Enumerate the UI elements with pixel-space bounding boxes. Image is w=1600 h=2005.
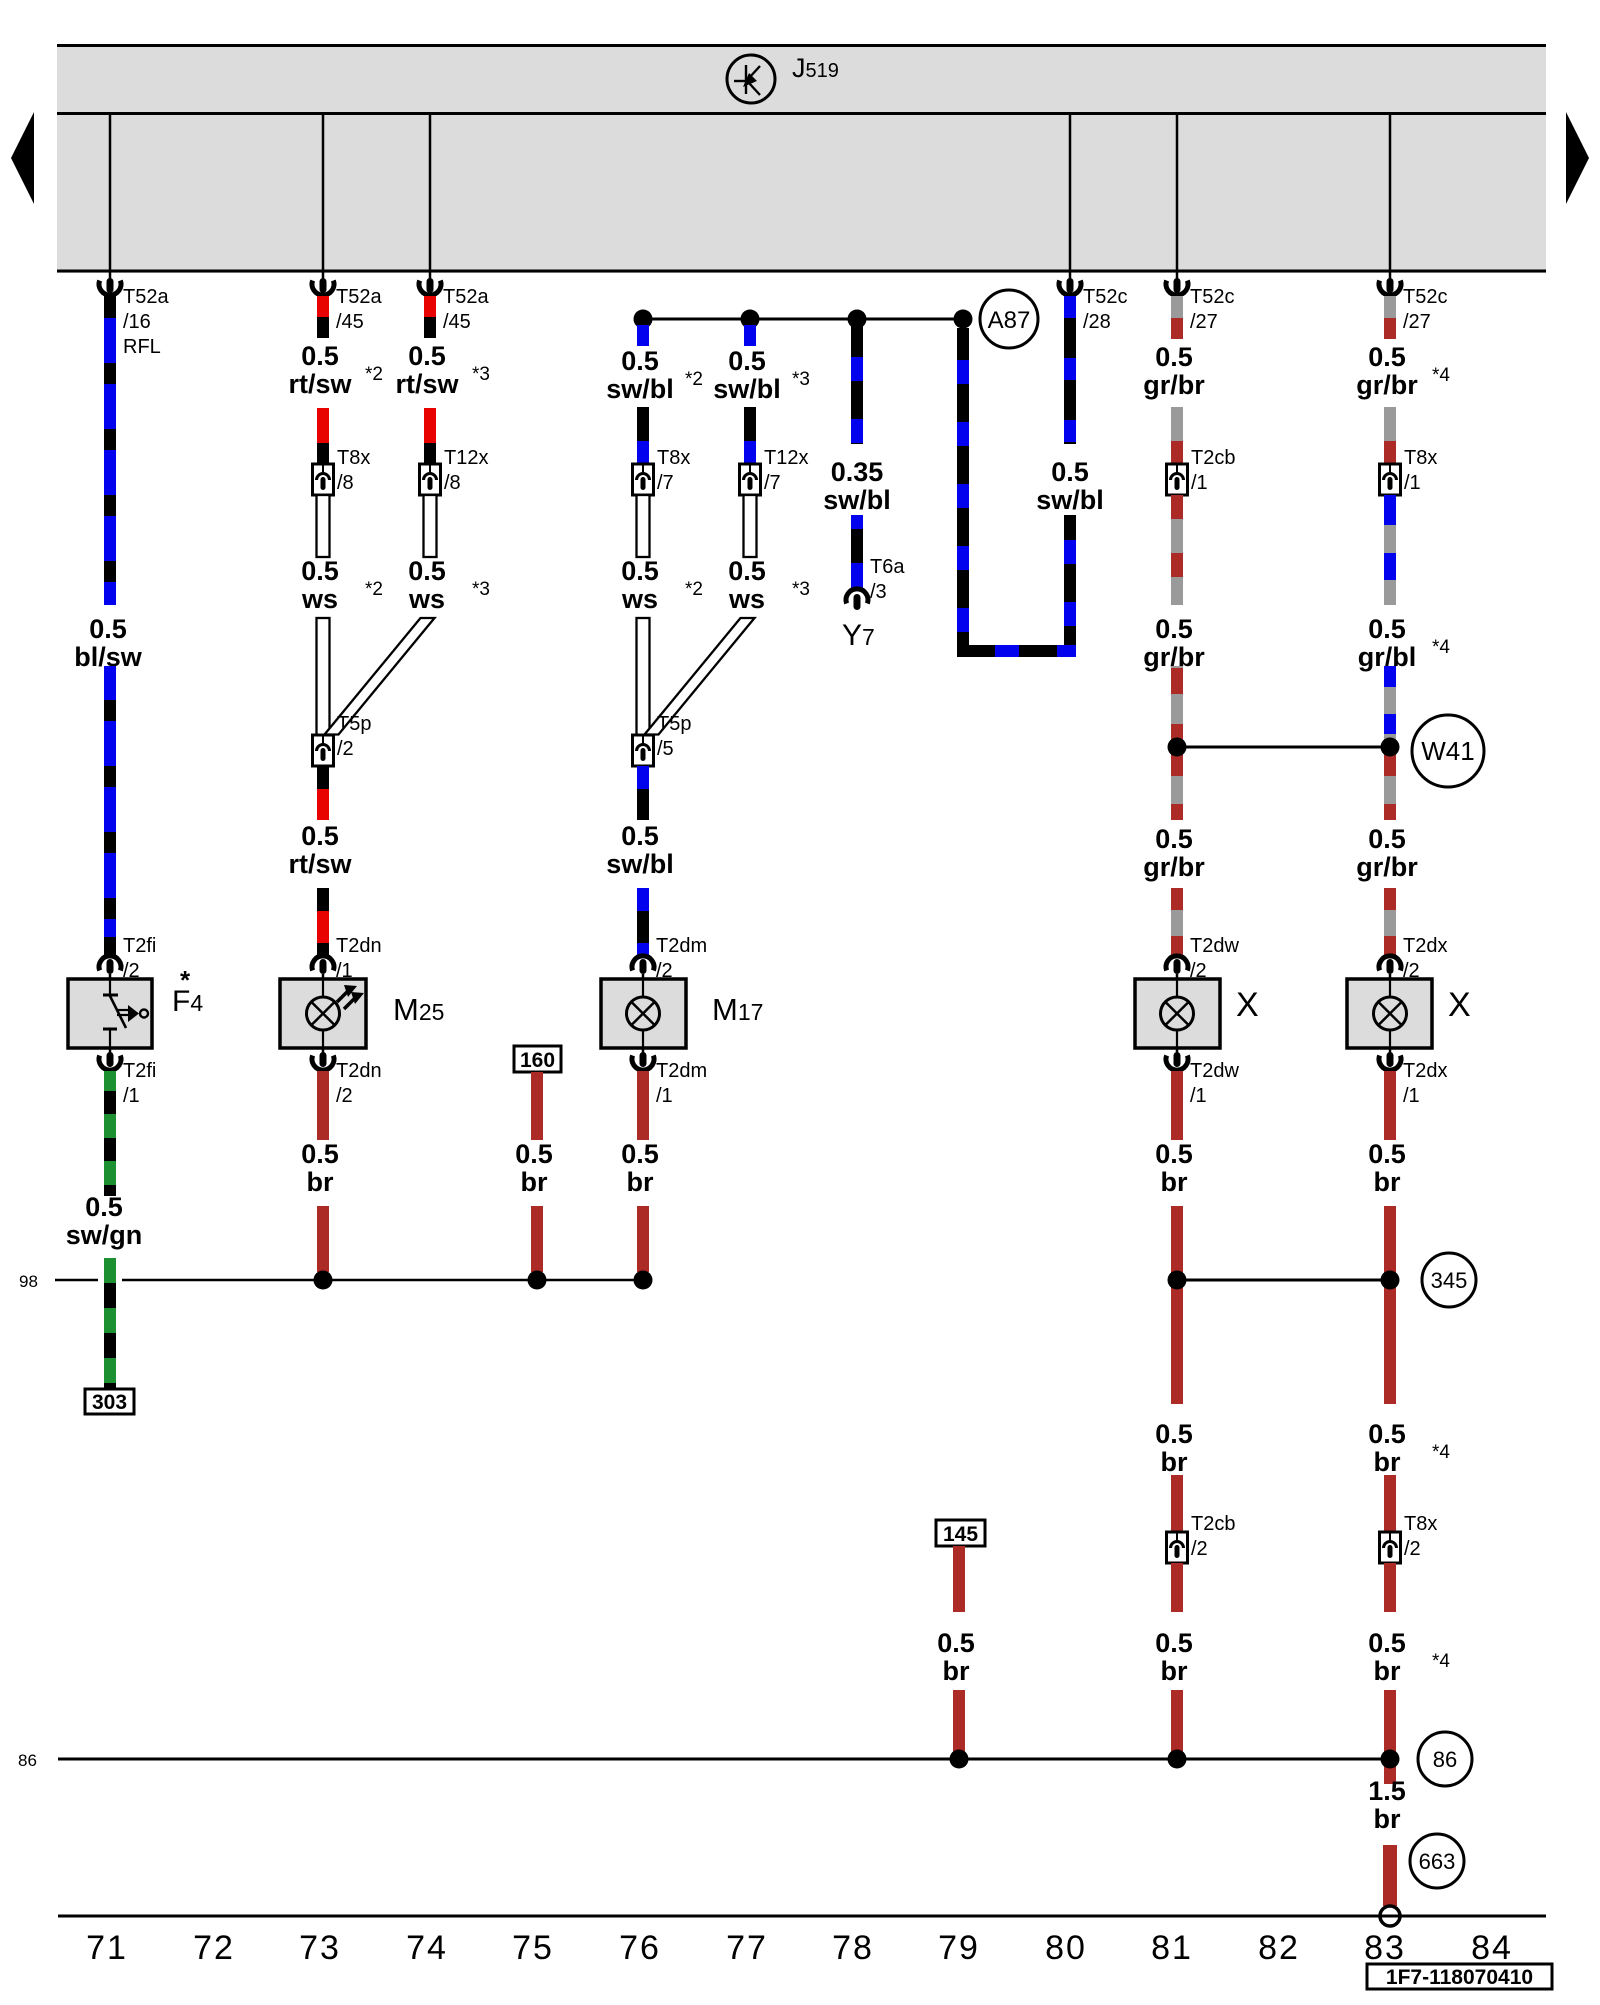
- junction dot W41 right: [1381, 738, 1400, 757]
- junction dot 98 a: [314, 1271, 333, 1290]
- svg-text:0.5: 0.5: [1155, 614, 1193, 644]
- wire 0.5 br (79) upper: [953, 1546, 965, 1612]
- svg-text:0.5: 0.5: [515, 1139, 553, 1169]
- svg-text:98: 98: [19, 1272, 38, 1291]
- svg-text:145: 145: [943, 1523, 978, 1546]
- control module box J519: [57, 44, 1546, 273]
- svg-text:sw/gn: sw/gn: [66, 1220, 143, 1250]
- svg-text:0.5: 0.5: [301, 556, 339, 586]
- wire gr/br to W41 node: [1171, 666, 1183, 747]
- wire 0.35 sw/bl lower (78): [851, 515, 863, 529]
- svg-text:0.5: 0.5: [1155, 342, 1193, 372]
- node junction row wire: [643, 318, 963, 321]
- svg-text:T2fi: T2fi: [123, 1060, 156, 1082]
- svg-text:ws: ws: [408, 584, 445, 614]
- svg-text:T52c: T52c: [1403, 286, 1447, 308]
- svg-text:W41: W41: [1421, 736, 1474, 766]
- wire 0.5 rt/sw segment (73): [317, 408, 329, 443]
- svg-text:/1: /1: [1403, 1085, 1420, 1107]
- terminal T52a/16 clamp: [109, 271, 112, 281]
- svg-text:0.5: 0.5: [301, 341, 339, 371]
- svg-text:86: 86: [18, 1751, 37, 1770]
- connector T5p/2 box: [313, 735, 334, 766]
- wire 0.5 bl/sw lower segment: [104, 666, 116, 937]
- svg-text:T52a: T52a: [336, 286, 382, 308]
- svg-text:74: 74: [406, 1929, 448, 1967]
- svg-text:345: 345: [1431, 1268, 1468, 1293]
- wire 1.5 br to ground point: [1383, 1845, 1397, 1906]
- junction dot 77: [741, 310, 760, 329]
- svg-text:T2cb: T2cb: [1191, 447, 1235, 469]
- wire 0.5 rt/sw above M25: [317, 888, 329, 911]
- svg-text:0.5: 0.5: [621, 821, 659, 851]
- svg-text:T2dm: T2dm: [656, 935, 707, 957]
- clamp T2dx/2: [1379, 956, 1401, 971]
- wire 0.35 sw/bl upper (78): [851, 319, 863, 444]
- wire 0.5 gr/br segment (81): [1171, 407, 1183, 441]
- svg-text:83: 83: [1364, 1929, 1406, 1967]
- wire 0.5 ws segment (74): [424, 495, 437, 557]
- svg-text:0.5: 0.5: [728, 556, 766, 586]
- svg-text:/5: /5: [657, 738, 674, 760]
- svg-text:71: 71: [86, 1929, 128, 1967]
- wire 0.5 rt/sw below T5p: [317, 766, 329, 789]
- svg-text:F4: F4: [172, 985, 203, 1018]
- svg-text:0.5: 0.5: [621, 346, 659, 376]
- svg-text:T2dm: T2dm: [656, 1060, 707, 1082]
- diagram number box 1F7-118070410: [1367, 1964, 1552, 1989]
- svg-text:*4: *4: [1432, 365, 1450, 386]
- terminal T52a/45 clamp (74): [429, 271, 432, 281]
- node circle 663: [1410, 1834, 1464, 1888]
- wire 0.5 ws diagonal to T5p/5: [645, 618, 755, 735]
- clamp T2dm/1: [642, 1048, 645, 1056]
- connector T2cb/2 box: [1167, 1532, 1188, 1563]
- wire 0.5 gr/br segment (83): [1384, 407, 1396, 441]
- svg-text:T2dn: T2dn: [336, 935, 382, 957]
- svg-text:/7: /7: [764, 472, 781, 494]
- bus wire 98: [55, 1279, 98, 1282]
- svg-text:0.5: 0.5: [621, 556, 659, 586]
- wire 0.5 sw/bl loop bottom: [957, 645, 1076, 657]
- svg-text:/45: /45: [336, 311, 364, 333]
- junction dot 345 left: [1168, 1271, 1187, 1290]
- svg-text:T2dx: T2dx: [1403, 1060, 1447, 1082]
- lamp X right box: [1347, 979, 1432, 1048]
- svg-text:84: 84: [1471, 1929, 1513, 1967]
- svg-text:0.5: 0.5: [728, 346, 766, 376]
- svg-text:0.35: 0.35: [831, 457, 884, 487]
- horizontal wire to W41: [1177, 746, 1390, 749]
- wire 0.5 br (76) upper: [637, 1071, 649, 1140]
- svg-text:/1: /1: [656, 1085, 673, 1107]
- svg-text:*2: *2: [365, 364, 383, 385]
- svg-text:T2dw: T2dw: [1190, 1060, 1239, 1082]
- node wire 345: [1177, 1279, 1390, 1282]
- svg-text:sw/bl: sw/bl: [823, 485, 891, 515]
- svg-text:1F7-118070410: 1F7-118070410: [1386, 1966, 1533, 1989]
- wire 0.5 ws segment (73): [317, 495, 330, 557]
- junction dot 76: [634, 310, 653, 329]
- junction dot 86 a: [950, 1750, 969, 1769]
- svg-text:T6a: T6a: [870, 556, 905, 578]
- svg-text:T2dx: T2dx: [1403, 935, 1447, 957]
- svg-text:sw/bl: sw/bl: [1036, 485, 1104, 515]
- wire 0.5 br (83) above node 345: [1384, 1071, 1396, 1140]
- svg-text:0.5: 0.5: [1155, 1419, 1193, 1449]
- svg-text:0.5: 0.5: [301, 1139, 339, 1169]
- svg-text:rt/sw: rt/sw: [288, 849, 352, 879]
- svg-text:rt/sw: rt/sw: [395, 369, 459, 399]
- svg-text:T8x: T8x: [657, 447, 690, 469]
- svg-text:/2: /2: [1191, 1538, 1208, 1560]
- svg-text:*4: *4: [1432, 637, 1450, 658]
- ground designation 303 box: [85, 1389, 134, 1414]
- svg-text:T2dn: T2dn: [336, 1060, 382, 1082]
- wire gr/br above right X lamp: [1384, 888, 1396, 910]
- svg-text:T5p: T5p: [657, 713, 691, 735]
- svg-text:72: 72: [193, 1929, 235, 1967]
- terminal T52a/45 clamp (73): [322, 271, 325, 281]
- connector T5p/5 box: [633, 735, 654, 766]
- svg-text:81: 81: [1151, 1929, 1193, 1967]
- junction dot 86 c: [1381, 1750, 1400, 1769]
- connector T8x/8 box: [313, 464, 334, 495]
- wire 0.5 sw/bl below T5p: [637, 766, 649, 789]
- svg-text:sw/bl: sw/bl: [713, 374, 781, 404]
- svg-text:T2fi: T2fi: [123, 935, 156, 957]
- wire 0.5 br (75) upper: [531, 1072, 543, 1140]
- wire gr/bl below T8x/1: [1384, 495, 1396, 525]
- node circle 345: [1422, 1253, 1476, 1307]
- svg-text:ws: ws: [301, 584, 338, 614]
- svg-text:A87: A87: [988, 307, 1031, 334]
- svg-text:/1: /1: [123, 1085, 140, 1107]
- wire 0.5 br (81) through node 345: [1171, 1206, 1183, 1404]
- wire gr/br below W41 node (83): [1384, 747, 1396, 820]
- wire 0.5 br (83) above T8x/2: [1384, 1475, 1396, 1532]
- svg-text:T2dw: T2dw: [1190, 935, 1239, 957]
- terminal T52c/27 clamp (81): [1176, 271, 1179, 281]
- svg-text:Y7: Y7: [842, 619, 875, 652]
- svg-text:*3: *3: [792, 579, 810, 600]
- wire 0.5 br (83) below T8x/2: [1384, 1563, 1396, 1612]
- svg-text:RFL: RFL: [123, 336, 161, 358]
- svg-text:0.5: 0.5: [1368, 1139, 1406, 1169]
- lamp X left symbol: [1161, 997, 1194, 1030]
- wire sw/bl above M17: [637, 888, 649, 911]
- wire 0.5 br (75) lower: [531, 1206, 543, 1272]
- svg-text:*2: *2: [365, 579, 383, 600]
- svg-text:0.5: 0.5: [301, 821, 339, 851]
- svg-text:/1: /1: [1190, 1085, 1207, 1107]
- svg-text:*3: *3: [472, 364, 490, 385]
- wire 0.5 br (73) lower: [317, 1206, 329, 1272]
- svg-text:T12x: T12x: [444, 447, 488, 469]
- svg-text:*2: *2: [685, 369, 703, 390]
- wire 0.5 br (83) through node 345: [1384, 1206, 1396, 1404]
- svg-text:T52c: T52c: [1190, 286, 1234, 308]
- svg-text:82: 82: [1258, 1929, 1300, 1967]
- svg-text:*4: *4: [1432, 1442, 1450, 1463]
- svg-text:80: 80: [1045, 1929, 1087, 1967]
- svg-text:T8x: T8x: [1404, 1513, 1437, 1535]
- svg-text:79: 79: [938, 1929, 980, 1967]
- wire sw/bl stub (77): [744, 325, 756, 346]
- svg-text:T52c: T52c: [1083, 286, 1127, 308]
- ground designation 160 box: [514, 1046, 561, 1072]
- wire 0.5 br (83) to bus 86: [1384, 1690, 1396, 1759]
- terminal T52c/28 clamp: [1069, 271, 1072, 281]
- wire 0.5 ws lower segment (73): [317, 618, 330, 735]
- svg-text:/45: /45: [443, 311, 471, 333]
- wire 0.5 ws lower segment (76): [637, 618, 650, 735]
- svg-text:T52a: T52a: [123, 286, 169, 308]
- junction dot 98 b: [528, 1271, 547, 1290]
- svg-text:X: X: [1448, 986, 1471, 1024]
- svg-text:0.5: 0.5: [621, 1139, 659, 1169]
- clamp T2dn/1: [312, 956, 334, 971]
- svg-text:160: 160: [520, 1049, 555, 1072]
- svg-text:0.5: 0.5: [1368, 1419, 1406, 1449]
- svg-text:0.5: 0.5: [85, 1192, 123, 1222]
- wire gr/bl to W41 node: [1384, 666, 1396, 687]
- wire 0.5 ws segment (77): [744, 495, 757, 557]
- svg-text:*3: *3: [472, 579, 490, 600]
- svg-text:br: br: [1374, 1656, 1401, 1686]
- svg-text:663: 663: [1419, 1849, 1456, 1874]
- svg-text:rt/sw: rt/sw: [288, 369, 352, 399]
- wire 0.5 br (81) above T2cb/2: [1171, 1475, 1183, 1532]
- junction dot 98 c: [634, 1271, 653, 1290]
- svg-text:/2: /2: [336, 1085, 353, 1107]
- svg-text:X: X: [1236, 986, 1259, 1024]
- wire 0.5 br (81) to bus 86: [1171, 1690, 1183, 1759]
- svg-text:br: br: [307, 1167, 334, 1197]
- connector T12x/7 box: [740, 464, 761, 495]
- clamp T2dn/2: [322, 1048, 325, 1056]
- wire 0.5 br (76) lower: [637, 1206, 649, 1272]
- svg-text:0.5: 0.5: [1155, 824, 1193, 854]
- wire 0.5 rt/sw stub (73): [317, 296, 329, 317]
- svg-text:*2: *2: [685, 579, 703, 600]
- node A87 circle: [980, 290, 1038, 348]
- svg-text:/3: /3: [870, 581, 887, 603]
- wire 0.5 sw/gn lower segment: [104, 1258, 116, 1389]
- clamp T6a/3: [846, 589, 868, 604]
- svg-text:T2cb: T2cb: [1191, 1513, 1235, 1535]
- svg-text:0.5: 0.5: [1368, 614, 1406, 644]
- svg-text:ws: ws: [728, 584, 765, 614]
- svg-text:0.5: 0.5: [408, 556, 446, 586]
- J519 internal lead wires: [109, 115, 112, 271]
- svg-text:0.5: 0.5: [1368, 342, 1406, 372]
- connector T2cb/1 box: [1167, 464, 1188, 495]
- svg-text:sw/bl: sw/bl: [606, 849, 674, 879]
- wire 0.5 sw/bl loop left vertical: [957, 328, 969, 645]
- svg-text:0.5: 0.5: [89, 614, 127, 644]
- svg-text:1.5: 1.5: [1368, 1776, 1406, 1806]
- junction dot 86 b: [1168, 1750, 1187, 1769]
- svg-text:br: br: [943, 1656, 970, 1686]
- wire 0.5 br (81) below T2cb/2: [1171, 1563, 1183, 1612]
- wire 0.5 br (79) lower: [953, 1690, 965, 1759]
- wire sw/bl segment (77): [744, 407, 756, 441]
- clamp T2dw/2: [1166, 956, 1188, 971]
- connector T8x/2 box: [1380, 1532, 1401, 1563]
- svg-text:/27: /27: [1190, 311, 1218, 333]
- svg-text:303: 303: [92, 1391, 127, 1414]
- node circle 86: [1418, 1732, 1472, 1786]
- lamp X right symbol: [1374, 997, 1407, 1030]
- lamp M25 box: [280, 979, 366, 1048]
- junction dot 345 right: [1381, 1271, 1400, 1290]
- svg-text:T12x: T12x: [764, 447, 808, 469]
- wire 0.5 sw/bl (80) upper: [1064, 296, 1076, 444]
- svg-text:gr/br: gr/br: [1356, 852, 1418, 882]
- wire stub below bus 86: [1384, 1759, 1396, 1784]
- clamp T2fi/2: [99, 956, 121, 971]
- svg-text:*3: *3: [792, 369, 810, 390]
- lamp X left box: [1135, 979, 1220, 1048]
- svg-text:T52a: T52a: [443, 286, 489, 308]
- svg-text:ws: ws: [621, 584, 658, 614]
- wire sw/bl stub (76): [637, 325, 649, 346]
- svg-text:76: 76: [619, 1929, 661, 1967]
- svg-text:0.5: 0.5: [1051, 457, 1089, 487]
- lamp W41 circle: [1412, 715, 1484, 787]
- svg-text:86: 86: [1433, 1747, 1457, 1772]
- svg-text:br: br: [1374, 1167, 1401, 1197]
- svg-text:gr/br: gr/br: [1143, 370, 1205, 400]
- svg-text:/8: /8: [444, 472, 461, 494]
- ground point 83 open circle: [1380, 1906, 1400, 1926]
- wire 0.5 bl/sw upper segment: [104, 296, 116, 318]
- svg-text:T5p: T5p: [337, 713, 371, 735]
- wire 0.5 ws segment (76): [637, 495, 650, 557]
- svg-text:75: 75: [512, 1929, 554, 1967]
- svg-text:gr/br: gr/br: [1143, 852, 1205, 882]
- svg-text:br: br: [1374, 1447, 1401, 1477]
- svg-text:gr/br: gr/br: [1356, 370, 1418, 400]
- svg-text:br: br: [1161, 1656, 1188, 1686]
- svg-text:br: br: [627, 1167, 654, 1197]
- svg-text:/7: /7: [657, 472, 674, 494]
- svg-text:/2: /2: [337, 738, 354, 760]
- svg-text:0.5: 0.5: [1368, 824, 1406, 854]
- wire 0.5 br (73) upper: [317, 1071, 329, 1140]
- terminal T52c/27 clamp (83): [1389, 271, 1392, 281]
- svg-text:/2: /2: [1404, 1538, 1421, 1560]
- lamp M17 box: [601, 979, 686, 1048]
- left page arrow: [11, 112, 34, 204]
- svg-text:*4: *4: [1432, 1651, 1450, 1672]
- wire 0.5 sw/gn upper segment: [104, 1071, 116, 1196]
- wire 0.5 gr/br stub (83): [1384, 296, 1396, 318]
- clamp T2dx/1: [1389, 1048, 1392, 1056]
- svg-text:sw/bl: sw/bl: [606, 374, 674, 404]
- bottom frame line: [58, 1915, 1546, 1918]
- junction dot 79: [954, 310, 973, 329]
- svg-text:0.5: 0.5: [1155, 1628, 1193, 1658]
- svg-text:0.5: 0.5: [1368, 1628, 1406, 1658]
- svg-text:/1: /1: [1191, 472, 1208, 494]
- wire 0.5 gr/br stub (81): [1171, 296, 1183, 318]
- svg-text:/16: /16: [123, 311, 151, 333]
- connector T12x/8 box: [420, 464, 441, 495]
- junction dot W41 left: [1168, 738, 1187, 757]
- wire 0.5 rt/sw stub (74): [424, 296, 436, 317]
- wire 0.5 sw/bl loop right vertical: [1064, 515, 1076, 645]
- wire gr/br below T2cb/1: [1171, 495, 1183, 605]
- bus wire 86: [58, 1758, 1390, 1761]
- svg-text:0.5: 0.5: [408, 341, 446, 371]
- J519 direction-arrow icon: [727, 55, 775, 103]
- wire 0.5 ws diagonal to T5p/2: [325, 618, 435, 735]
- svg-text:/8: /8: [337, 472, 354, 494]
- svg-text:T8x: T8x: [337, 447, 370, 469]
- svg-text:73: 73: [299, 1929, 341, 1967]
- connector T8x/7 box: [633, 464, 654, 495]
- svg-text:0.5: 0.5: [1155, 1139, 1193, 1169]
- divider line of J519 box: [57, 112, 1546, 115]
- lamp M25 symbol: [307, 997, 340, 1030]
- svg-text:br: br: [1374, 1804, 1401, 1834]
- M25 flash arrows: [337, 991, 348, 1002]
- svg-text:br: br: [521, 1167, 548, 1197]
- svg-text:/1: /1: [1404, 472, 1421, 494]
- ground designation 145 box: [936, 1520, 985, 1546]
- wire sw/bl segment (76): [637, 407, 649, 441]
- switch F4 symbol: [109, 980, 111, 995]
- clamp T2fi/1: [109, 1048, 112, 1056]
- lamp M17 symbol: [627, 997, 660, 1030]
- wire gr/br below W41 node: [1171, 747, 1183, 820]
- switch F4 box: [68, 979, 152, 1048]
- wire gr/br above left X lamp: [1171, 888, 1183, 910]
- wire 0.5 rt/sw segment (74): [424, 408, 436, 443]
- svg-text:0.5: 0.5: [937, 1628, 975, 1658]
- junction dot 78: [848, 310, 867, 329]
- clamp T2dw/1: [1176, 1048, 1179, 1056]
- svg-text:77: 77: [726, 1929, 768, 1967]
- wire 0.5 br (81) above node 345: [1171, 1071, 1183, 1140]
- svg-text:/28: /28: [1083, 311, 1111, 333]
- right page arrow: [1566, 112, 1589, 204]
- svg-text:T8x: T8x: [1404, 447, 1437, 469]
- svg-text:/27: /27: [1403, 311, 1431, 333]
- svg-text:78: 78: [832, 1929, 874, 1967]
- svg-text:br: br: [1161, 1167, 1188, 1197]
- connector T8x/1 box: [1380, 464, 1401, 495]
- svg-text:br: br: [1161, 1447, 1188, 1477]
- clamp T2dm/2: [632, 956, 654, 971]
